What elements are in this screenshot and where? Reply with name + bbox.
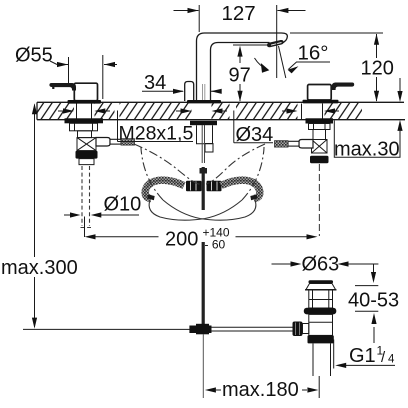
tailpipe bbox=[313, 343, 331, 376]
supply line bottom bbox=[23, 328, 190, 330]
right hose slack loop bbox=[163, 200, 256, 220]
dimension 97 bbox=[229, 45, 272, 102]
hole arrows: right hole bbox=[282, 108, 339, 113]
hex union right bbox=[207, 181, 222, 191]
dashed extension pipe bbox=[81, 166, 92, 228]
label M28x1,5 bbox=[118, 111, 194, 145]
label Ø34 bbox=[234, 111, 274, 147]
dimension 200 +140 -60 bbox=[85, 217, 318, 252]
flange bbox=[190, 121, 217, 125]
spout tip / aerator bbox=[267, 40, 284, 47]
svg-text:max.300: max.300 bbox=[1, 257, 78, 279]
dimension 127 bbox=[174, 2, 306, 78]
countertop bottom edge bbox=[37, 119, 405, 121]
hole arrows: center hole bbox=[176, 108, 227, 113]
svg-text:Ø63: Ø63 bbox=[302, 254, 340, 276]
coupling nut bbox=[308, 335, 334, 343]
dimension max.300 bbox=[1, 103, 78, 328]
spout escutcheon bbox=[187, 100, 221, 103]
supply pipe bbox=[202, 125, 204, 163]
left braided hose hook bbox=[145, 180, 184, 198]
right handle base plate bbox=[303, 100, 339, 104]
svg-text:34: 34 bbox=[144, 72, 166, 94]
spout bbox=[197, 33, 288, 102]
ball joint bbox=[77, 138, 96, 151]
side outlet hex bbox=[96, 138, 110, 147]
hole arrows in counter: left hole bbox=[58, 108, 110, 113]
flange bbox=[306, 118, 334, 123]
left handle base plate bbox=[68, 100, 102, 104]
mounting nut bbox=[309, 124, 331, 130]
spout centerline extension bbox=[202, 334, 204, 398]
drain pop-up waste bbox=[293, 280, 337, 376]
svg-text:max.180: max.180 bbox=[222, 379, 299, 401]
lower nut bbox=[310, 156, 329, 164]
left handle shank below counter bbox=[65, 104, 135, 228]
spout column and arm bbox=[197, 33, 288, 102]
valve body bbox=[313, 130, 326, 140]
flexible hose dash-dot left upper bbox=[134, 144, 200, 184]
left hose slack loop bbox=[149, 200, 242, 220]
svg-text:- 60: - 60 bbox=[205, 238, 226, 252]
side outlet hex pointing left bbox=[299, 140, 313, 149]
tee fitting bbox=[189, 324, 211, 335]
lower nut bbox=[76, 151, 98, 159]
svg-text:200: 200 bbox=[165, 229, 198, 251]
check valve box bbox=[205, 144, 213, 153]
svg-text:40-53: 40-53 bbox=[348, 290, 399, 312]
svg-text:120: 120 bbox=[361, 58, 394, 80]
upper body bbox=[309, 290, 333, 308]
countertop left edge bbox=[36, 102, 38, 119]
right braided hose hook bbox=[221, 180, 260, 198]
label G1 1/4 bbox=[334, 340, 395, 369]
lower body bbox=[309, 314, 333, 335]
svg-text:Ø55: Ø55 bbox=[15, 45, 53, 67]
dimension max.30 bbox=[334, 78, 403, 161]
cap dome bbox=[306, 284, 336, 290]
svg-text:G1: G1 bbox=[349, 345, 376, 367]
dimension 120 bbox=[290, 33, 394, 102]
left handle lever bbox=[49, 83, 97, 101]
dimension Ø63 bbox=[272, 254, 379, 276]
spout rear clip bbox=[185, 82, 194, 102]
ball joint bbox=[312, 140, 328, 154]
countertop hatched band bbox=[37, 102, 405, 119]
flexible hose dash-dot right upper bbox=[206, 144, 265, 184]
spout shank below counter bbox=[186, 121, 222, 327]
right handle lever bbox=[308, 82, 355, 100]
mounting nut bbox=[70, 123, 98, 131]
dashed centerline down bbox=[318, 164, 320, 236]
dimension 40-53 bbox=[348, 264, 399, 343]
lever knob bbox=[293, 322, 303, 337]
16 degree angle bbox=[255, 41, 331, 78]
flange bbox=[65, 118, 104, 123]
right handle shank below counter bbox=[275, 104, 334, 237]
svg-text:16°: 16° bbox=[298, 41, 329, 64]
pop-up rod to drain bbox=[211, 327, 294, 331]
dimension Ø55 bbox=[15, 45, 117, 100]
svg-text:4: 4 bbox=[388, 353, 395, 365]
svg-text:127: 127 bbox=[222, 2, 256, 25]
flange ring bbox=[304, 308, 337, 315]
hex union left bbox=[186, 181, 202, 191]
valve body bbox=[78, 131, 92, 138]
dimension Ø10 bbox=[64, 194, 141, 218]
spout inner lines bbox=[203, 84, 205, 102]
cap top bbox=[309, 280, 334, 283]
dimension 34 bbox=[142, 72, 222, 94]
svg-text:97: 97 bbox=[229, 65, 251, 87]
svg-text:Ø10: Ø10 bbox=[104, 194, 142, 216]
dimension max.180 bbox=[205, 376, 319, 401]
countertop top edge bbox=[37, 101, 404, 103]
